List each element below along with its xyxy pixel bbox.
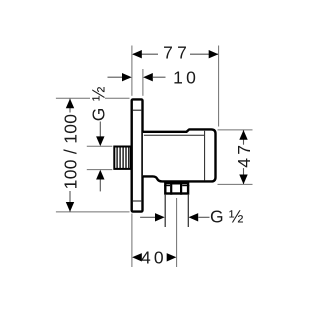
node: arrowhead G1/2 left pointing down [96,136,104,146]
svg-text:47: 47 [234,142,254,168]
wire: top extension line of dim 100/100 [56,97,130,99]
wire: extension line left of dim 77/10 [131,46,133,96]
wire: extension line right of dim 77 [218,46,220,127]
wire: G1/2 left lower tail [99,180,101,192]
svg-text:10: 10 [173,67,199,87]
wire: dim 77 left tail [133,53,158,55]
wire: extension line right of dim 10 [142,69,144,96]
wire: extension line left of dim 40 [131,214,133,268]
svg-text:77: 77 [163,43,191,63]
wire: dim 77 right tail [190,53,218,55]
outlet body outline [143,129,216,181]
pipe right edge below nut [187,195,189,227]
thread crest line 4 [125,147,127,168]
node: arrowhead 100/100 down [66,202,74,212]
node: arrowhead G1/2 bottom pointing right [155,213,165,221]
node: arrowhead 77 left [132,50,142,58]
hose connection nut [165,183,188,193]
wire: G1/2 bottom left tail [140,216,156,218]
body end-cap inner line [204,131,206,181]
plate top inner edge line [133,109,141,111]
node: arrowhead 47 down [239,175,247,185]
wire: bottom extension line of dim 100/100 [56,211,130,213]
plate bottom inner edge line [133,200,141,202]
node: arrowhead 10 right (points left) [143,73,153,81]
nut facet divider left [170,182,172,195]
svg-text:100 / 100: 100 / 100 [60,114,80,190]
wire: G1/2 left upper tail [99,122,101,138]
node: arrowhead 100/100 up [66,99,74,109]
escutcheon plate (side view) [132,99,143,211]
threaded stub G1/2 into wall [114,147,131,169]
nut chamfer line right facet [182,185,189,187]
wire: dim 10 right tail [153,76,166,78]
svg-text:G ½: G ½ [210,206,244,226]
wire: top extension line of dim G1/2 left [87,145,113,147]
wire: top extension line of dim 47 [218,129,253,131]
svg-text:G ½: G ½ [89,86,109,121]
node: arrowhead 77 right [209,50,219,58]
wire: bottom extension line of dim 47 [218,183,253,185]
thread crest line 5 [128,147,130,168]
node: arrowhead G1/2 bottom pointing left [189,213,199,221]
node: arrowhead 40 left [132,253,142,261]
thread crest line 1 [116,147,118,168]
thread crest line 2 [119,147,121,168]
wire: dim line 100/100 vertical [69,99,71,212]
svg-text:40: 40 [141,248,167,268]
wire: G1/2 bottom right tail [198,216,209,218]
node: arrowhead 10 left (points right) [122,73,132,81]
node: arrowhead 40 right [167,253,177,261]
thread crest line 3 [122,147,124,168]
nut facet divider right [180,182,182,195]
node: arrowhead 47 up [239,130,247,140]
wire: bottom extension line of dim G1/2 left [87,169,113,171]
pipe centerline [176,198,178,267]
node: arrowhead G1/2 left pointing up [96,170,104,180]
wire: dim line 47 vertical [243,130,245,184]
body inner top edge line [144,134,204,136]
nut chamfer line left facet [164,185,170,187]
wire: dim 10 left outside tail [108,76,123,78]
pipe left edge below nut [164,195,166,227]
